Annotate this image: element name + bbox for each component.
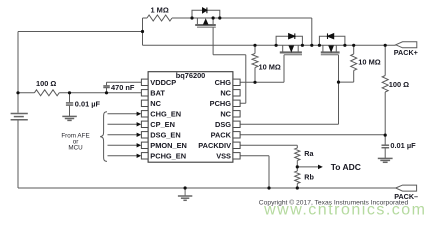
svg-text:PACK+: PACK+ [394,48,418,57]
svg-text:NC: NC [220,109,231,118]
svg-text:To ADC: To ADC [331,162,361,172]
svg-text:BAT: BAT [150,88,165,97]
svg-text:PMON_EN: PMON_EN [150,141,187,150]
svg-text:bq76200: bq76200 [176,71,206,80]
svg-text:CHG: CHG [215,78,232,87]
svg-text:PACK: PACK [211,130,232,139]
svg-text:10 MΩ: 10 MΩ [259,63,281,72]
svg-text:Ra: Ra [304,149,314,158]
svg-text:DSG: DSG [215,120,231,129]
svg-text:1 MΩ: 1 MΩ [151,6,169,15]
svg-text:100 Ω: 100 Ω [36,79,56,88]
svg-text:NC: NC [220,88,231,97]
svg-text:Copyright © 2017, Texas Instru: Copyright © 2017, Texas Instruments Inco… [259,198,409,206]
svg-text:470 nF: 470 nF [111,83,135,92]
svg-text:PCHG_EN: PCHG_EN [150,151,186,160]
svg-text:NC: NC [150,99,161,108]
svg-text:Rb: Rb [304,172,314,181]
svg-text:CP_EN: CP_EN [150,120,175,129]
svg-text:VDDCP: VDDCP [150,78,176,87]
svg-text:PCHG: PCHG [210,99,232,108]
svg-text:100 Ω: 100 Ω [389,80,409,89]
svg-text:0.01 µF: 0.01 µF [390,141,416,150]
svg-text:0.01 µF: 0.01 µF [75,99,101,108]
svg-text:DSG_EN: DSG_EN [150,130,180,139]
svg-text:10 MΩ: 10 MΩ [358,57,380,66]
svg-text:MCU: MCU [68,144,83,151]
svg-text:CHG_EN: CHG_EN [150,109,181,118]
svg-text:VSS: VSS [216,151,231,160]
svg-text:PACKDIV: PACKDIV [198,141,231,150]
